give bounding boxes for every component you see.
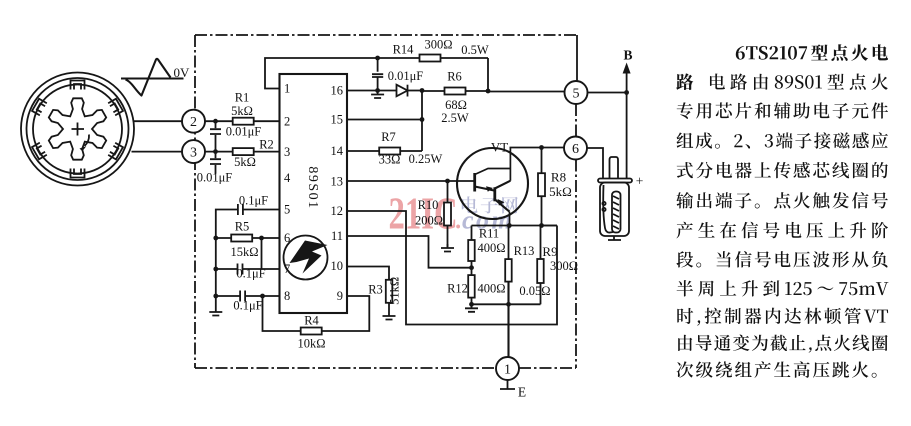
svg-text:6: 6 — [284, 231, 290, 245]
wire pin12 route — [347, 211, 557, 325]
wire pin1 net to R14 rail — [265, 58, 488, 89]
svg-text:16: 16 — [331, 84, 344, 98]
wire pin16 — [347, 90, 397, 92]
wire terminal5 to B/coil — [588, 93, 627, 180]
svg-text:R5: R5 — [235, 220, 250, 234]
wire emitter node — [472, 225, 558, 227]
wire collector to terminal 6 — [510, 147, 565, 149]
resistor R13 (0.05ohm) — [508, 226, 510, 260]
svg-text:R9: R9 — [542, 244, 557, 259]
svg-text:4: 4 — [284, 171, 291, 185]
svg-text:R12: R12 — [447, 282, 468, 296]
diode D1 — [397, 85, 408, 97]
wire terminal6 to coil — [587, 148, 603, 179]
svg-text:R10: R10 — [418, 198, 439, 212]
svg-text:300Ω: 300Ω — [424, 38, 452, 52]
wire terminal2 to pin2 — [205, 120, 280, 122]
resistor R7 — [347, 150, 422, 152]
svg-text:7: 7 — [284, 262, 290, 276]
svg-text:5: 5 — [573, 86, 580, 101]
svg-text:300Ω: 300Ω — [550, 259, 578, 273]
svg-text:0.1μF: 0.1μF — [239, 194, 268, 208]
resistor R14 — [420, 55, 441, 62]
capacitor 0.01uF between ch2/ch3 — [215, 121, 217, 151]
wire pin15 — [347, 91, 422, 152]
svg-text:+: + — [636, 174, 644, 189]
svg-text:0.25W: 0.25W — [409, 152, 443, 166]
svg-text:68Ω: 68Ω — [445, 98, 467, 112]
star rotor — [49, 98, 106, 159]
svg-text:15kΩ: 15kΩ — [230, 245, 258, 259]
resistor R2 — [233, 148, 254, 155]
resistor R9 — [540, 226, 542, 260]
svg-text:VT: VT — [491, 140, 508, 155]
terminal 1 — [496, 357, 519, 380]
svg-text:200Ω: 200Ω — [415, 214, 443, 228]
svg-text:R11: R11 — [479, 227, 499, 241]
svg-text:3: 3 — [190, 145, 197, 160]
svg-text:12: 12 — [331, 204, 344, 218]
svg-text:R4: R4 — [304, 314, 319, 328]
svg-text:2: 2 — [190, 115, 197, 130]
svg-text:1: 1 — [504, 362, 511, 377]
capacitor 0.1uF at pin7 — [216, 268, 280, 270]
schematic outer border (dash-dot) — [195, 35, 577, 368]
svg-text:2: 2 — [284, 114, 290, 128]
svg-text:2.5W: 2.5W — [441, 111, 469, 125]
wire pin13 to VT base — [347, 180, 474, 182]
svg-text:400Ω: 400Ω — [477, 282, 505, 296]
wire emitter current path to terminal 1 — [507, 282, 509, 357]
description text column — [676, 44, 888, 378]
wire distributor to terminal 2 — [134, 120, 182, 122]
terminal 6 — [564, 137, 587, 160]
capacitor 0.01uF at pin16 — [377, 58, 379, 91]
svg-text:10kΩ: 10kΩ — [297, 337, 325, 351]
wire R5 to pin7 line — [261, 238, 263, 269]
wire distributor to terminal 3 — [132, 151, 183, 153]
svg-text:R8: R8 — [551, 170, 566, 185]
resistor R4 pin8 to pin9 — [263, 296, 370, 331]
op-amp U1 89S01 ignition IC — [280, 74, 348, 313]
resistor R6 — [422, 58, 488, 91]
svg-text:400Ω: 400Ω — [477, 241, 505, 255]
svg-text:R3: R3 — [368, 283, 383, 297]
svg-text:R13: R13 — [514, 244, 535, 258]
capacitor 0.1uF at pin8 — [216, 295, 280, 297]
svg-text:5: 5 — [284, 203, 290, 217]
ground R10 — [441, 244, 454, 252]
resistor R10 — [447, 181, 449, 247]
svg-text:B: B — [623, 48, 632, 63]
svg-text:3: 3 — [284, 145, 290, 159]
svg-text:10: 10 — [331, 259, 344, 273]
svg-text:6: 6 — [572, 142, 579, 157]
resistor R8 — [541, 148, 543, 226]
svg-text:0.05Ω: 0.05Ω — [519, 284, 550, 298]
resistor R12 — [471, 268, 473, 275]
resistor R1 — [233, 118, 254, 125]
svg-text:R2: R2 — [259, 137, 274, 151]
ground left rail — [209, 308, 222, 316]
svg-text:14: 14 — [331, 144, 344, 158]
ground R12 — [465, 304, 478, 312]
svg-text:0.01μF: 0.01μF — [388, 69, 424, 83]
wire terminal3 to pin3 — [205, 151, 280, 153]
resistor R11 — [471, 226, 473, 268]
svg-text:R7: R7 — [381, 130, 396, 144]
svg-text:5kΩ: 5kΩ — [234, 155, 256, 169]
svg-text:13: 13 — [331, 175, 344, 189]
terminal 5 — [565, 81, 588, 104]
pickup coils — [71, 81, 85, 90]
wire pin11 to R11/R12 node — [347, 236, 472, 268]
svg-text:R14: R14 — [393, 43, 415, 57]
svg-text:89S01: 89S01 — [305, 166, 320, 209]
svg-text:9: 9 — [337, 289, 343, 303]
svg-text:0V: 0V — [174, 65, 191, 80]
svg-text:0.01μF: 0.01μF — [226, 124, 262, 138]
ground E — [500, 380, 515, 389]
wire R6 to terminal 5 — [488, 91, 565, 93]
ignition coil — [598, 157, 632, 240]
transistor VT darlington — [457, 148, 528, 226]
watermark 21IC logo — [389, 188, 518, 238]
border segment to terminal 5 — [576, 35, 578, 82]
ground R3 — [383, 312, 396, 320]
svg-text:33Ω: 33Ω — [379, 153, 401, 167]
ground under 0.01uF — [375, 88, 380, 93]
svg-text:51kΩ: 51kΩ — [387, 277, 401, 305]
svg-text:11: 11 — [331, 229, 343, 243]
svg-text:0.01μF: 0.01μF — [197, 170, 233, 184]
svg-text:0.5W: 0.5W — [461, 43, 489, 57]
svg-text:1: 1 — [284, 82, 290, 96]
svg-text:5kΩ: 5kΩ — [231, 104, 253, 118]
svg-text:R6: R6 — [447, 70, 462, 84]
input waveform symbol — [121, 77, 184, 79]
svg-text:15: 15 — [331, 113, 344, 127]
resistor R3 — [386, 280, 393, 303]
wire pin10 to R3 — [347, 267, 389, 281]
terminal 3 — [182, 140, 205, 163]
svg-text:0.1μF: 0.1μF — [236, 267, 265, 281]
capacitor 0.1uF at pin5 — [216, 210, 280, 309]
resistor R5 — [216, 237, 280, 239]
IC logo circle — [284, 236, 328, 280]
svg-text:8: 8 — [284, 289, 290, 303]
rotation arrow — [85, 135, 90, 147]
wire R12/R13/R9 bottom row — [472, 303, 541, 305]
distributor / magnetic pickup assembly — [21, 73, 134, 186]
terminal 2 — [182, 110, 205, 133]
svg-text:5kΩ: 5kΩ — [549, 184, 572, 199]
svg-text:E: E — [518, 385, 526, 400]
B supply arrow — [626, 72, 628, 93]
svg-text:0.1μF: 0.1μF — [233, 299, 262, 313]
capacitor 0.01uF on ch3 — [215, 152, 217, 174]
svg-text:R1: R1 — [235, 91, 250, 105]
